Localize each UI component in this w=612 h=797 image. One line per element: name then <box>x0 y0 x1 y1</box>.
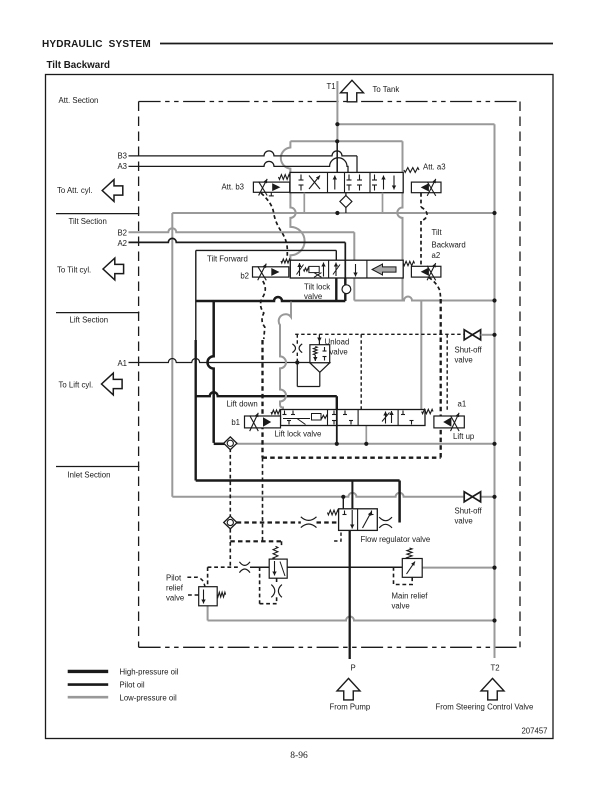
svg-text:T2: T2 <box>491 664 500 673</box>
svg-text:valve: valve <box>455 356 473 365</box>
svg-text:P: P <box>351 664 356 673</box>
svg-text:a2: a2 <box>432 251 441 260</box>
svg-text:Pilot oil: Pilot oil <box>120 681 145 690</box>
svg-text:A2: A2 <box>117 239 127 248</box>
svg-text:Tilt Forward: Tilt Forward <box>207 255 248 264</box>
svg-text:a1: a1 <box>458 400 467 409</box>
svg-text:Unload: Unload <box>325 338 350 347</box>
svg-text:Pilot: Pilot <box>166 574 182 583</box>
svg-text:Lift down: Lift down <box>227 400 258 409</box>
svg-text:From Steering Control Valve: From Steering Control Valve <box>436 702 534 711</box>
svg-text:Att. Section: Att. Section <box>59 96 99 105</box>
svg-text:Flow regulator valve: Flow regulator valve <box>361 535 431 544</box>
svg-text:HYDRAULIC SYSTEM: HYDRAULIC SYSTEM <box>42 39 151 50</box>
svg-text:From Pump: From Pump <box>330 702 371 711</box>
svg-text:Tilt Section: Tilt Section <box>69 217 107 226</box>
svg-text:Lift up: Lift up <box>453 432 475 441</box>
svg-text:Tilt: Tilt <box>432 228 443 237</box>
svg-text:Shut-off: Shut-off <box>455 346 483 355</box>
svg-text:B3: B3 <box>117 152 127 161</box>
svg-text:Lift Section: Lift Section <box>70 316 109 325</box>
svg-text:Att. a3: Att. a3 <box>423 163 446 172</box>
svg-text:relief: relief <box>166 584 184 593</box>
svg-text:Low-pressure oil: Low-pressure oil <box>120 693 177 702</box>
svg-text:valve: valve <box>330 348 348 357</box>
svg-text:B2: B2 <box>117 228 127 237</box>
svg-text:A3: A3 <box>117 162 127 171</box>
svg-text:Tilt Backward: Tilt Backward <box>47 60 111 71</box>
svg-text:valve: valve <box>166 594 184 603</box>
svg-text:Main relief: Main relief <box>392 592 429 601</box>
svg-text:b2: b2 <box>240 272 249 281</box>
svg-text:Inlet Section: Inlet Section <box>68 471 111 480</box>
svg-text:To Att. cyl.: To Att. cyl. <box>57 186 93 195</box>
svg-text:High-pressure oil: High-pressure oil <box>120 668 179 677</box>
svg-text:Att. b3: Att. b3 <box>221 183 244 192</box>
svg-text:To Tank: To Tank <box>373 85 400 94</box>
svg-text:T1: T1 <box>327 82 336 91</box>
svg-text:Lift lock valve: Lift lock valve <box>275 430 322 439</box>
svg-text:Backward: Backward <box>432 241 466 250</box>
svg-text:Tilt lock: Tilt lock <box>304 283 330 292</box>
svg-text:valve: valve <box>455 517 473 526</box>
svg-text:To Tilt cyl.: To Tilt cyl. <box>57 265 91 274</box>
svg-text:b1: b1 <box>231 418 240 427</box>
svg-text:valve: valve <box>304 292 322 301</box>
svg-text:207457: 207457 <box>521 727 547 736</box>
svg-text:8-96: 8-96 <box>290 751 308 761</box>
svg-text:To Lift cyl.: To Lift cyl. <box>59 381 94 390</box>
svg-text:Shut-off: Shut-off <box>455 507 483 516</box>
svg-text:A1: A1 <box>117 359 127 368</box>
svg-text:valve: valve <box>392 602 410 611</box>
